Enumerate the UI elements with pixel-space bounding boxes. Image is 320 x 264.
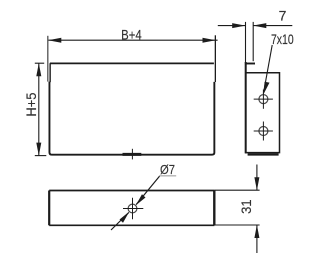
leader O7 upper segment: [136, 176, 160, 205]
arrow B+4 left: [48, 38, 61, 43]
arrow leader 7x10: [263, 82, 269, 95]
bottom view outline: [49, 191, 214, 226]
side view flange strip left edge: [245, 22, 247, 63]
hole H1 circle: [259, 95, 268, 104]
arrow 7 pointing left: [253, 23, 266, 28]
svg-text:7x10: 7x10: [271, 32, 294, 47]
arrow B+4 right: [203, 38, 216, 43]
arrow 7 pointing right: [232, 23, 245, 28]
right flange notch line: [214, 35, 216, 82]
side view flange strip right edge: [252, 22, 254, 61]
svg-text:B+4: B+4: [121, 26, 142, 42]
svg-text:31: 31: [239, 199, 254, 214]
arrow H+5 up: [36, 63, 41, 76]
dimension 31 line lower: [256, 225, 258, 253]
dimension H+5 extension top: [35, 62, 44, 64]
svg-text:H+5: H+5: [24, 93, 39, 117]
leader O7 shelf: [160, 175, 177, 177]
dimension 31 line upper: [256, 165, 258, 191]
side view step edge: [245, 63, 255, 65]
hole H2 circle: [259, 127, 268, 136]
arrow O7 lower (points to hole, up-right): [120, 212, 130, 223]
extension 31 bottom: [214, 224, 259, 226]
dimension 7 line right segment: [253, 25, 292, 27]
hole H2 centerlines: [254, 130, 273, 132]
leader O7 lower segment: [111, 213, 129, 231]
left flange notch line: [47, 36, 49, 82]
front view outline (bracket face): [49, 63, 214, 155]
arrow H+5 down: [36, 143, 41, 156]
arrow 31 up: [254, 225, 259, 238]
leader 7x10 to hole: [263, 45, 272, 94]
side view mounting plate outline: [246, 73, 280, 153]
dimension H+5 line: [38, 63, 40, 155]
dimension 7 line left segment: [218, 25, 245, 27]
hole H1 centerlines: [254, 98, 273, 100]
hole H3 centerlines: [123, 208, 143, 210]
side view bottom thick edge: [248, 153, 279, 155]
svg-text:7: 7: [279, 7, 287, 23]
dimension H+5 extension bottom: [35, 155, 47, 157]
dimension B+4 line: [49, 39, 218, 41]
hole H3 circle (bottom view): [128, 204, 137, 213]
svg-text:Ø7: Ø7: [160, 162, 175, 177]
side view left edge lower: [245, 62, 247, 153]
extension 31 top: [214, 189, 259, 191]
arrow 31 down: [254, 177, 259, 190]
hole center mark on front view bottom edge: [123, 153, 142, 156]
arrow O7 upper (points to hole, down-left): [136, 194, 146, 205]
